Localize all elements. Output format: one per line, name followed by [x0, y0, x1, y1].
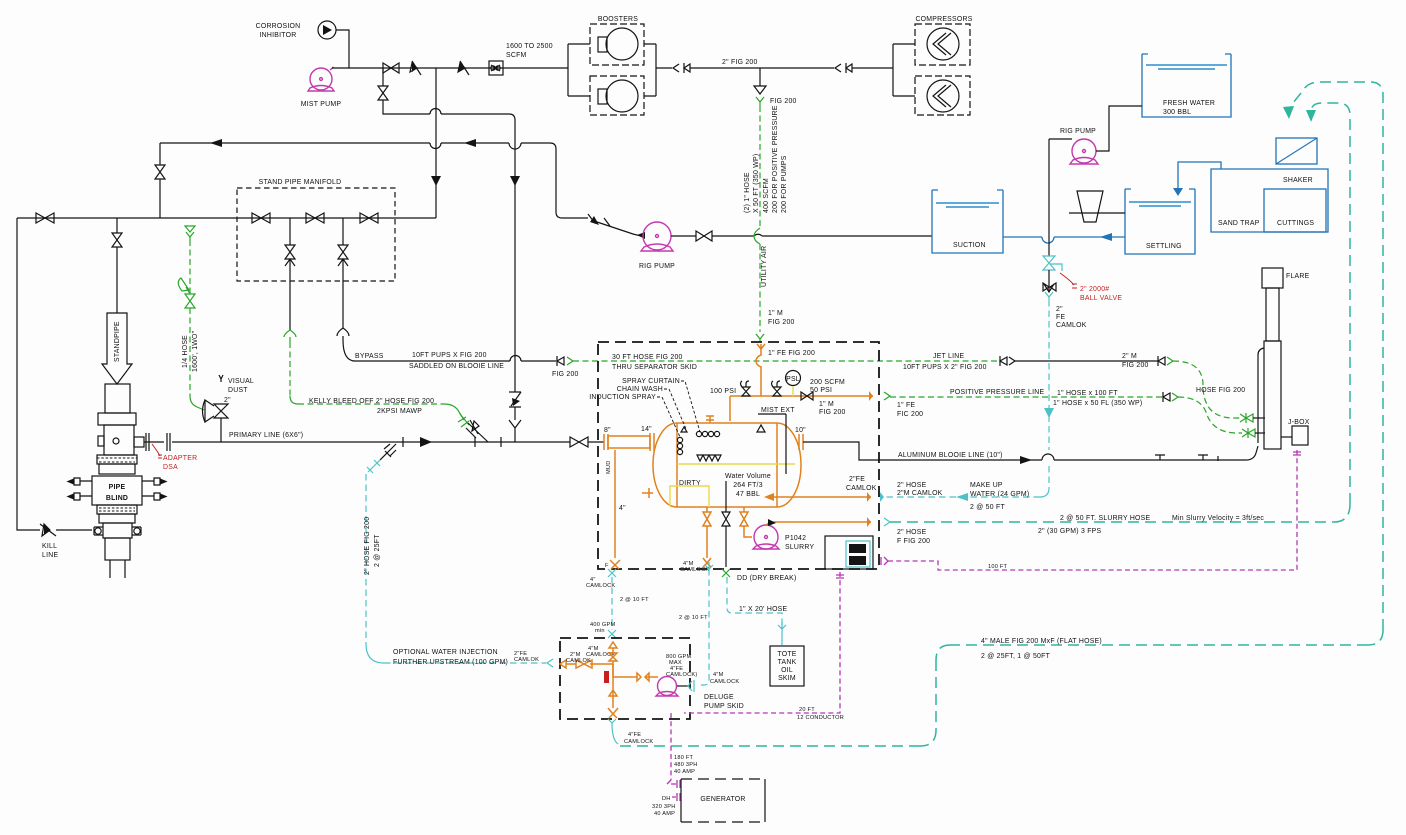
svg-text:INDUCTION SPRAY: INDUCTION SPRAY	[589, 394, 656, 401]
svg-text:2 @ 25FT, 1 @ 50FT: 2 @ 25FT, 1 @ 50FT	[981, 653, 1051, 660]
svg-text:14": 14"	[641, 426, 652, 433]
svg-text:2"FE: 2"FE	[849, 476, 865, 483]
svg-text:CAMLOK: CAMLOK	[514, 657, 539, 663]
svg-text:8": 8"	[604, 427, 611, 434]
svg-text:SCFM: SCFM	[506, 52, 527, 59]
svg-text:320 3PH: 320 3PH	[652, 804, 676, 810]
svg-text:MIST PUMP: MIST PUMP	[301, 101, 342, 108]
svg-text:2 @ 25FT: 2 @ 25FT	[374, 534, 381, 567]
svg-text:X 50 FT (350 WP): X 50 FT (350 WP)	[753, 154, 760, 213]
svg-text:J-BOX: J-BOX	[1288, 419, 1310, 426]
svg-text:FIG 200: FIG 200	[1122, 362, 1149, 369]
svg-text:2" M: 2" M	[1122, 353, 1137, 360]
svg-text:MUD: MUD	[606, 461, 612, 475]
svg-text:2 @ 10 FT: 2 @ 10 FT	[679, 615, 708, 621]
svg-text:DH: DH	[662, 796, 671, 802]
svg-text:1" M: 1" M	[768, 310, 783, 317]
svg-text:1600', 1WO": 1600', 1WO"	[192, 330, 199, 372]
svg-text:STAND PIPE MANIFOLD: STAND PIPE MANIFOLD	[259, 179, 342, 186]
svg-text:300 BBL: 300 BBL	[1163, 109, 1191, 116]
svg-text:2KPSI MAWP: 2KPSI MAWP	[377, 408, 422, 415]
svg-text:CAMLOCK: CAMLOCK	[586, 583, 615, 589]
svg-text:4"FE: 4"FE	[628, 732, 641, 738]
svg-text:264 FT/3: 264 FT/3	[733, 482, 763, 489]
svg-text:KILL: KILL	[42, 543, 57, 550]
svg-text:FIG 200: FIG 200	[819, 409, 846, 416]
svg-text:1" HOSE x 50 FL (350 WP): 1" HOSE x 50 FL (350 WP)	[1053, 400, 1142, 407]
svg-text:PUMP SKID: PUMP SKID	[704, 703, 744, 710]
svg-text:FIG 200: FIG 200	[552, 371, 579, 378]
svg-text:ALUMINUM BLOOIE LINE (10"): ALUMINUM BLOOIE LINE (10")	[898, 452, 1003, 459]
svg-text:P1042: P1042	[785, 535, 806, 542]
svg-text:OIL: OIL	[781, 667, 793, 674]
svg-text:200 SCFM: 200 SCFM	[810, 379, 845, 386]
svg-text:CAMLOCK: CAMLOCK	[680, 567, 709, 573]
svg-text:JET LINE: JET LINE	[933, 353, 965, 360]
svg-text:F: F	[605, 563, 609, 569]
svg-text:10FT PUPS X FIG 200: 10FT PUPS X FIG 200	[412, 352, 487, 359]
svg-text:FE: FE	[1056, 314, 1065, 321]
svg-text:1" FE FIG 200: 1" FE FIG 200	[768, 350, 815, 357]
svg-text:2": 2"	[224, 397, 231, 404]
svg-text:SHAKER: SHAKER	[1283, 177, 1313, 184]
svg-text:STANDPIPE: STANDPIPE	[114, 321, 121, 362]
svg-text:1" HOSE x 100 FT: 1" HOSE x 100 FT	[1057, 390, 1118, 397]
svg-text:FIG 200: FIG 200	[770, 98, 797, 105]
svg-text:GENERATOR: GENERATOR	[700, 796, 745, 803]
svg-text:MAKE UP: MAKE UP	[970, 482, 1003, 489]
svg-text:200 FOR PUMPS: 200 FOR PUMPS	[781, 155, 788, 213]
svg-text:CORROSION: CORROSION	[256, 23, 301, 30]
svg-text:40 AMP: 40 AMP	[674, 769, 695, 775]
svg-text:BALL VALVE: BALL VALVE	[1080, 295, 1122, 302]
svg-text:100 FT: 100 FT	[988, 564, 1008, 570]
svg-text:4"M: 4"M	[713, 672, 724, 678]
svg-text:INHIBITOR: INHIBITOR	[260, 32, 297, 39]
svg-text:UTILITY AIR: UTILITY AIR	[761, 246, 768, 287]
svg-text:1/4 HOSE: 1/4 HOSE	[182, 335, 189, 368]
svg-text:FIC 200: FIC 200	[897, 411, 923, 418]
svg-text:POSITIVE PRESSURE LINE: POSITIVE PRESSURE LINE	[950, 389, 1044, 396]
svg-text:min: min	[595, 628, 605, 634]
svg-text:FLARE: FLARE	[1286, 273, 1310, 280]
svg-text:COMPRESSORS: COMPRESSORS	[915, 16, 972, 23]
svg-text:2" 2000#: 2" 2000#	[1080, 286, 1109, 293]
svg-text:TANK: TANK	[778, 659, 797, 666]
svg-text:2" FIG 200: 2" FIG 200	[722, 59, 758, 66]
svg-text:10": 10"	[795, 427, 806, 434]
svg-text:2 @ 50 FT. SLURRY HOSE: 2 @ 50 FT. SLURRY HOSE	[1060, 515, 1151, 522]
svg-text:DELUGE: DELUGE	[704, 694, 734, 701]
svg-text:200 FOR POSITIVE PRESSURE: 200 FOR POSITIVE PRESSURE	[772, 105, 779, 213]
svg-text:2 @ 50 FT: 2 @ 50 FT	[970, 504, 1005, 511]
svg-text:SAND TRAP: SAND TRAP	[1218, 220, 1260, 227]
svg-text:SETTLING: SETTLING	[1146, 243, 1182, 250]
svg-text:400 SCFM: 400 SCFM	[763, 178, 770, 213]
svg-text:40 AMP: 40 AMP	[654, 811, 675, 817]
svg-text:47 BBL: 47 BBL	[736, 491, 760, 498]
svg-text:RIG PUMP: RIG PUMP	[639, 263, 675, 270]
svg-text:2" HOSE: 2" HOSE	[897, 482, 927, 489]
svg-text:2" HOSE: 2" HOSE	[897, 529, 927, 536]
svg-text:SADDLED ON BLOOIE LINE: SADDLED ON BLOOIE LINE	[409, 363, 504, 370]
svg-text:2 @ 10 FT: 2 @ 10 FT	[620, 597, 649, 603]
svg-text:Water Volume: Water Volume	[725, 473, 771, 480]
svg-text:SPRAY CURTAIN: SPRAY CURTAIN	[622, 378, 680, 385]
svg-text:2"M CAMLOK: 2"M CAMLOK	[897, 490, 943, 497]
svg-text:12 CONDUCTOR: 12 CONDUCTOR	[797, 715, 844, 721]
svg-text:KELLY BLEED OFF 2" HOSE FIG: KELLY BLEED OFF 2" HOSE FIG 200	[309, 398, 434, 405]
svg-text:FRESH WATER: FRESH WATER	[1163, 100, 1215, 107]
svg-text:ADAPTER: ADAPTER	[163, 455, 197, 462]
svg-text:CAMLOK: CAMLOK	[566, 658, 591, 664]
svg-text:20 FT: 20 FT	[799, 707, 815, 713]
svg-text:BLIND: BLIND	[106, 495, 128, 502]
svg-text:100 PSI: 100 PSI	[710, 388, 736, 395]
svg-text:30 FT HOSE FIG 200: 30 FT HOSE FIG 200	[612, 354, 683, 361]
svg-text:2" HOSE FIG 200: 2" HOSE FIG 200	[364, 517, 371, 575]
svg-text:PIPE: PIPE	[109, 484, 126, 491]
svg-text:CAMLOCK: CAMLOCK	[624, 739, 653, 745]
svg-text:BOOSTERS: BOOSTERS	[598, 16, 638, 23]
svg-text:2": 2"	[1056, 306, 1063, 313]
svg-text:VISUAL: VISUAL	[228, 378, 254, 385]
svg-text:480 3PH: 480 3PH	[674, 762, 698, 768]
svg-text:PSL: PSL	[786, 376, 800, 383]
svg-text:OPTIONAL WATER INJECTION: OPTIONAL WATER INJECTION	[393, 649, 498, 656]
svg-text:CAMLOK: CAMLOK	[846, 485, 877, 492]
svg-text:HOSE FIG 200: HOSE FIG 200	[1196, 387, 1245, 394]
svg-text:CAMLOK: CAMLOK	[1056, 322, 1087, 329]
svg-text:DUST: DUST	[228, 387, 248, 394]
svg-text:CAMLOCK): CAMLOCK)	[666, 672, 698, 678]
svg-text:1600 TO 2500: 1600 TO 2500	[506, 43, 553, 50]
svg-text:CHAIN WASH: CHAIN WASH	[617, 386, 663, 393]
svg-text:180 FT: 180 FT	[674, 755, 694, 761]
svg-text:TOTE: TOTE	[777, 651, 796, 658]
svg-text:1" FE: 1" FE	[897, 402, 915, 409]
svg-text:4" MALE FIG 200 MxF (FLAT HOSE: 4" MALE FIG 200 MxF (FLAT HOSE)	[981, 638, 1102, 645]
svg-text:FIG 200: FIG 200	[768, 319, 795, 326]
svg-text:THRU SEPARATOR SKID: THRU SEPARATOR SKID	[612, 364, 697, 371]
svg-text:CAMLOCK: CAMLOCK	[710, 679, 739, 685]
svg-text:BYPASS: BYPASS	[355, 353, 384, 360]
svg-text:RIG PUMP: RIG PUMP	[1060, 128, 1096, 135]
svg-text:1" M: 1" M	[819, 401, 834, 408]
svg-text:PRIMARY LINE (6X6"): PRIMARY LINE (6X6")	[229, 432, 303, 439]
svg-text:WATER (24 GPM): WATER (24 GPM)	[970, 491, 1029, 498]
svg-text:DD (DRY BREAK): DD (DRY BREAK)	[737, 575, 797, 582]
svg-text:SUCTION: SUCTION	[953, 242, 986, 249]
svg-text:CUTTINGS: CUTTINGS	[1277, 220, 1314, 227]
svg-text:10FT PUPS X 2" FIG 200: 10FT PUPS X 2" FIG 200	[903, 364, 987, 371]
svg-text:4": 4"	[619, 505, 626, 512]
svg-text:LINE: LINE	[42, 552, 58, 559]
svg-text:MIST EXT: MIST EXT	[761, 407, 795, 414]
svg-text:DSA: DSA	[163, 464, 178, 471]
svg-text:2" (30 GPM) 3 FPS: 2" (30 GPM) 3 FPS	[1038, 528, 1102, 535]
svg-text:F FIG 200: F FIG 200	[897, 538, 930, 545]
svg-text:Min Slurry Velocity = 3ft/sec: Min Slurry Velocity = 3ft/sec	[1172, 515, 1264, 522]
svg-text:SKIM: SKIM	[778, 675, 796, 682]
svg-text:1" X 20' HOSE: 1" X 20' HOSE	[739, 606, 788, 613]
svg-text:(2) 1" HOSE: (2) 1" HOSE	[744, 172, 751, 213]
svg-text:SLURRY: SLURRY	[785, 544, 814, 551]
svg-text:FURTHER UPSTREAM (100 GPM): FURTHER UPSTREAM (100 GPM)	[393, 659, 508, 666]
svg-text:DIRTY: DIRTY	[679, 480, 701, 487]
